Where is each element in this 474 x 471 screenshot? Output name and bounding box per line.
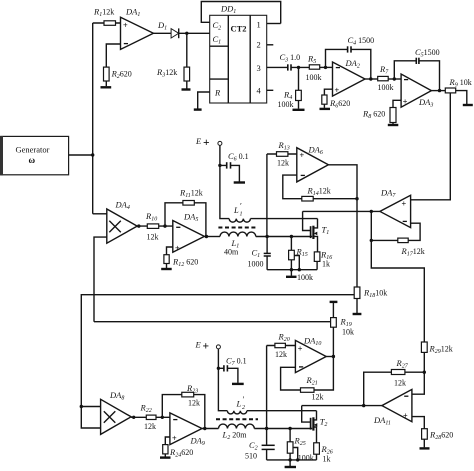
node DA5 output	[205, 235, 208, 238]
wire generator bus vertical	[92, 23, 94, 214]
ground L2 block	[285, 460, 296, 467]
svg-text:1k: 1k	[322, 260, 330, 269]
op-amp DA9	[170, 413, 205, 447]
wire DD1 R pin to ground	[198, 92, 210, 109]
wire C3 to R5	[291, 66, 309, 68]
svg-text:L: L	[236, 399, 242, 409]
coupling dashed line L1	[218, 227, 256, 229]
node L1/C1 junction	[265, 235, 268, 238]
svg-text:R1412k: R1412k	[307, 185, 331, 197]
svg-text:R: R	[214, 88, 221, 98]
svg-text:E: E	[195, 340, 202, 350]
svg-text:R1112k: R1112k	[179, 188, 203, 200]
svg-text:R24620: R24620	[169, 447, 193, 459]
node DA11 output junction	[362, 404, 365, 407]
svg-text:12k: 12k	[312, 393, 324, 402]
resistor R4	[278, 67, 302, 109]
svg-text:CT2: CT2	[231, 24, 247, 34]
svg-text:R2620: R2620	[111, 69, 132, 81]
node R25 tap bottom	[296, 458, 299, 461]
resistor R15 trimmer	[289, 237, 308, 270]
diode D1	[157, 20, 179, 38]
wire DA7 output down to R29	[371, 211, 424, 342]
node DA4 output	[137, 224, 140, 227]
node R15 bottom	[290, 268, 293, 271]
capacitor C3	[280, 52, 301, 71]
resistor R16	[314, 250, 332, 270]
capacitor C1	[248, 237, 271, 270]
capacitor C2	[245, 440, 275, 461]
capacitor C4 feedback	[326, 35, 375, 79]
transistor T1	[303, 211, 330, 252]
svg-text:C7 0.1: C7 0.1	[226, 356, 247, 368]
svg-text:+: +	[403, 97, 408, 106]
resistor R20	[267, 332, 296, 360]
resistor R17 feedback	[371, 223, 424, 257]
wire DD1 pin4 stub	[267, 89, 274, 91]
multiplier DA8	[101, 390, 132, 434]
svg-text:+: +	[335, 86, 340, 95]
svg-text:+: +	[300, 151, 305, 160]
svg-text:R12 620: R12 620	[172, 257, 198, 269]
node DA8 input junction	[80, 405, 83, 408]
svg-text:100k: 100k	[297, 273, 313, 282]
node DA10 output	[332, 355, 335, 358]
capacitor C5 feedback	[394, 47, 439, 91]
op-amp DA6	[297, 145, 329, 182]
resistor R13	[267, 140, 297, 168]
svg-text:10k: 10k	[342, 328, 354, 337]
op-amp DA3	[401, 74, 433, 109]
wire L1 block bottom rail	[267, 269, 317, 271]
svg-text:R2912k: R2912k	[429, 344, 453, 356]
svg-text:2: 2	[257, 40, 261, 50]
node DA3 output	[438, 89, 441, 92]
node R22/R23 junction	[161, 416, 164, 419]
ground under R12	[161, 268, 172, 270]
svg-text:100k: 100k	[278, 100, 294, 109]
resistor R7	[378, 64, 402, 92]
resistor R12	[164, 247, 198, 268]
resistor R14 feedback	[283, 175, 357, 201]
svg-text:C3 1.0: C3 1.0	[280, 52, 301, 64]
terminal E+ top	[195, 136, 222, 149]
svg-text:L2 20m: L2 20m	[222, 430, 248, 442]
terminal E+ bottom	[195, 340, 221, 353]
svg-text:40m: 40m	[224, 248, 239, 257]
inductor L2 prime	[227, 394, 316, 414]
ground under C7	[232, 383, 244, 385]
node C7 junction	[217, 367, 220, 370]
multiplier DA4	[93, 200, 138, 244]
capacitor C6	[220, 151, 249, 182]
svg-text:R312k: R312k	[156, 67, 177, 79]
node R29/R27 junction	[423, 371, 426, 374]
resistor R28	[412, 417, 453, 448]
op-amp DA7 (left-pointing)	[380, 188, 411, 228]
svg-text:C6 0.1: C6 0.1	[228, 151, 249, 163]
ground DD1 R pin	[194, 108, 202, 110]
wire DD1 pin1 to band	[267, 23, 281, 25]
op-amp DA2	[333, 58, 366, 96]
wire E+ down to L1p	[220, 145, 229, 218]
resistor R19 with top bar	[330, 302, 354, 357]
svg-text:+: +	[175, 244, 180, 253]
svg-text:2: 2	[242, 405, 245, 411]
wire R20 input vertical	[266, 346, 268, 445]
svg-text:510: 510	[245, 452, 257, 461]
op-amp DA10	[295, 336, 326, 373]
wire bus A	[81, 295, 354, 428]
node generator junction	[91, 153, 94, 156]
wire DA2 out to R7	[365, 78, 378, 80]
ground under C6	[234, 181, 245, 183]
svg-text:+: +	[123, 21, 128, 30]
svg-text:′: ′	[242, 394, 244, 404]
resistor R18	[354, 287, 387, 313]
node DA7 output junction	[370, 210, 373, 213]
inductor L1 prime	[229, 201, 317, 223]
svg-text:E: E	[195, 136, 202, 146]
resistor R9	[445, 77, 471, 104]
svg-text:+: +	[403, 411, 408, 420]
node L2/C2 junction	[265, 427, 268, 430]
svg-text:3: 3	[257, 63, 261, 73]
node after D1	[185, 32, 188, 35]
svg-text:L: L	[233, 205, 239, 215]
Generator box	[0, 136, 69, 175]
node DA3 inv input	[393, 77, 396, 80]
node DA2 output	[369, 77, 372, 80]
svg-text:+: +	[402, 199, 407, 208]
node DA9 output	[203, 427, 206, 430]
svg-text:1: 1	[257, 20, 261, 30]
svg-text:Generator: Generator	[16, 145, 50, 155]
resistor R21 feedback	[281, 357, 334, 402]
ground under R3	[182, 88, 191, 90]
op-amp DA5	[173, 212, 205, 253]
wire R13 input vertical	[266, 154, 268, 237]
ground under R18	[353, 313, 362, 315]
wire DA3 out	[431, 90, 445, 92]
ground under R8	[388, 124, 399, 126]
wire D1 to DD1	[179, 32, 210, 34]
node C6 junction	[218, 164, 221, 167]
ground under R28	[420, 447, 430, 449]
node L2/R25 junction	[288, 427, 291, 430]
svg-text:+: +	[203, 137, 210, 149]
counter DD1 block CT2	[210, 15, 267, 103]
ground under R6	[320, 108, 331, 110]
svg-text:ω: ω	[29, 155, 36, 165]
svg-text:R1810k: R1810k	[363, 288, 387, 300]
svg-text:12k: 12k	[188, 399, 200, 408]
resistor R10	[137, 211, 173, 241]
transistor T2	[302, 406, 328, 443]
wire E+ down to L2p	[218, 349, 227, 411]
wire L2 block bottom rail	[267, 459, 317, 461]
svg-text:100k: 100k	[298, 454, 314, 463]
node R15 tap bottom	[298, 268, 301, 271]
wire DA3 output to DA7 noninv input	[411, 93, 451, 200]
node R14/DA6 output junction	[355, 197, 358, 200]
resistor R26	[314, 443, 333, 464]
svg-text:1: 1	[240, 212, 243, 218]
resistor R22	[131, 403, 170, 432]
op-amp DA11 (left-pointing)	[373, 389, 412, 426]
ground under R2	[101, 86, 112, 88]
svg-text:R1712k: R1712k	[401, 246, 425, 258]
node R10/R11 junction	[163, 224, 166, 227]
svg-text:+: +	[172, 434, 177, 443]
node R17 junction	[370, 239, 373, 242]
svg-text:C51500: C51500	[415, 47, 440, 59]
wire bus B to R19	[94, 321, 331, 323]
wire DD1 pin2 stub	[267, 44, 274, 46]
svg-text:′: ′	[240, 201, 242, 211]
node L1/R15 junction	[290, 235, 293, 238]
svg-text:R6620: R6620	[329, 98, 350, 110]
wire DA8 upper input	[81, 406, 100, 408]
svg-text:+: +	[203, 341, 210, 353]
resistor R1	[93, 7, 121, 26]
wire DA4 lower input down to bus B	[94, 237, 107, 322]
svg-text:12k: 12k	[394, 379, 406, 388]
svg-text:12k: 12k	[147, 233, 159, 242]
inductor L2	[202, 424, 312, 441]
resistor R8	[362, 100, 401, 124]
resistor R3	[156, 33, 190, 88]
svg-text:12k: 12k	[277, 159, 289, 168]
svg-text:12k: 12k	[275, 350, 287, 359]
resistor R11 feedback	[165, 188, 206, 237]
svg-text:R28620: R28620	[429, 430, 453, 442]
wire DA6 output down to R18	[328, 165, 357, 287]
svg-text:100k: 100k	[378, 83, 394, 92]
resistor R6	[322, 89, 350, 109]
node DA2 inv input	[324, 66, 327, 69]
wire DA7 output to T1 gate	[303, 210, 380, 212]
ground after R9	[463, 104, 473, 106]
resistor R24	[163, 437, 194, 459]
resistor R29	[412, 342, 453, 394]
wire generator output	[69, 154, 93, 156]
resistor R27	[364, 358, 425, 406]
inductor L1	[204, 232, 312, 256]
svg-text:R8 620: R8 620	[362, 109, 385, 121]
ground L1 block	[286, 270, 313, 282]
resistor R23 feedback	[162, 383, 205, 429]
svg-text:100k: 100k	[306, 73, 322, 82]
node R25 bottom	[288, 458, 291, 461]
wire DA11 output to T2 gate	[302, 405, 382, 407]
wire DA10 output	[326, 356, 333, 358]
node C3/R4 junction	[297, 66, 300, 69]
op-amp DA1	[121, 7, 154, 50]
resistor R5	[306, 53, 333, 82]
svg-text:1000: 1000	[248, 260, 264, 269]
resistor R2	[104, 44, 132, 86]
svg-text:C4 1500: C4 1500	[348, 35, 375, 47]
resistor R25 trimmer	[287, 429, 313, 463]
svg-text:1k: 1k	[323, 455, 331, 464]
wire DA1 output	[153, 32, 171, 34]
svg-text:R9 10k: R9 10k	[449, 77, 472, 89]
counter DD1 top band	[201, 2, 280, 24]
capacitor C7	[218, 356, 246, 383]
ground under R4	[293, 109, 305, 111]
svg-text:+: +	[298, 344, 303, 353]
svg-text:12k: 12k	[144, 422, 156, 431]
ground under R24	[160, 456, 171, 458]
svg-text:R112k: R112k	[93, 7, 114, 19]
node DA8 output	[132, 416, 135, 419]
wire DD1 pin3 out	[267, 66, 288, 68]
coupling dashed line L2	[216, 418, 258, 420]
